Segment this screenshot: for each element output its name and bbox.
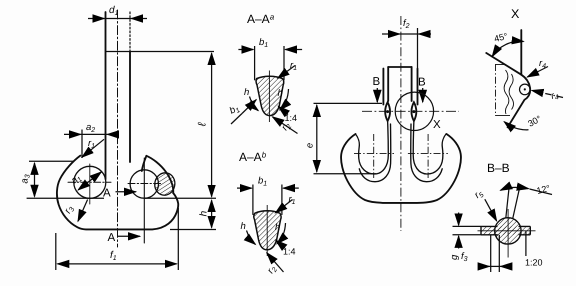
- b1 dim section b: [237, 187, 252, 189]
- svg-text:B–B: B–B: [487, 161, 510, 175]
- g ext top: [453, 225, 482, 227]
- B-B plane line: [362, 110, 459, 112]
- left hollow horizontal centreline: [354, 152, 394, 154]
- 30 deg arc: [504, 122, 528, 130]
- right hollow horizontal centreline: [408, 152, 448, 154]
- b1 leader lower-left section a: [242, 100, 256, 114]
- b-b circle: [495, 218, 521, 244]
- left saddle circle a1: [74, 166, 106, 198]
- b-b flange outline: [481, 226, 530, 234]
- f3 ext left: [490, 235, 492, 272]
- b1 ext left: [254, 46, 256, 80]
- svg-text:B: B: [418, 77, 426, 89]
- right hook seat line: [413, 121, 446, 174]
- svg-text:h: h: [275, 222, 280, 233]
- a3 dimension: [34, 163, 36, 197]
- X detail circle: [395, 92, 433, 130]
- section arrow A top: [116, 191, 136, 193]
- g arrow bottom: [458, 236, 460, 249]
- right beak left edge: [142, 156, 147, 171]
- a2 extension: [81, 130, 83, 159]
- g ext bottom: [453, 234, 482, 236]
- h bottom extension: [170, 229, 216, 231]
- a1 diagonal dimension: [78, 172, 101, 190]
- tip point outline: [508, 75, 531, 128]
- break wavy line 1: [504, 70, 509, 114]
- section arrow A bottom: [117, 235, 140, 237]
- B arrow left: [376, 88, 378, 102]
- break wavy line 2: [509, 74, 513, 110]
- centre line middle figure: [400, 16, 402, 231]
- body tub outline: [341, 134, 461, 203]
- svg-text:1:4: 1:4: [285, 113, 298, 123]
- left under-wrap line: [359, 124, 390, 182]
- f3 ext right: [498, 235, 500, 272]
- saddle tangent line left span: [27, 197, 104, 199]
- r1 leader section a: [278, 66, 295, 79]
- shank right edge: [129, 12, 131, 52]
- h dimension line: [211, 200, 213, 227]
- g arrow top: [458, 213, 460, 226]
- shank inner edge right: [411, 67, 413, 101]
- f2 right extension: [417, 28, 419, 68]
- svg-text:B: B: [373, 76, 381, 88]
- r5 leader dashed: [532, 90, 563, 97]
- svg-text:A: A: [108, 232, 116, 244]
- d1 dimension: [88, 18, 104, 20]
- f1 dimension line: [58, 263, 177, 265]
- h arc right section b: [277, 223, 286, 244]
- left circle horizontal centreline: [68, 181, 111, 183]
- tip radius circle: [520, 84, 531, 95]
- f2 dimension: [382, 33, 400, 35]
- right tip lens: [411, 102, 416, 121]
- f1 extension left: [55, 233, 57, 270]
- section b centreline: [266, 205, 268, 256]
- 45 deg arc: [492, 41, 523, 56]
- taper line right: [513, 187, 520, 218]
- hatched section ellipse on right limb: [153, 171, 177, 197]
- svg-text:h: h: [278, 88, 283, 99]
- shank outer edge right (f2 face): [417, 69, 419, 105]
- svg-text:1:20: 1:20: [525, 258, 543, 268]
- b-b hatch fill circle: [495, 218, 521, 244]
- right tip dot: [412, 110, 415, 113]
- b1 dim section a: [238, 49, 253, 51]
- 1:4 leader section b: [276, 240, 285, 248]
- svg-text:X: X: [511, 7, 520, 21]
- detail centreline: [495, 64, 497, 116]
- 1:20 reference line: [525, 231, 527, 256]
- shank inner edge left: [387, 67, 389, 101]
- 1:4 leader section a: [278, 106, 288, 114]
- svg-text:h: h: [241, 221, 246, 232]
- left hollow vertical centreline: [373, 134, 375, 178]
- tip outer face vertical: [520, 30, 522, 75]
- section a-a-b outline: [254, 211, 281, 250]
- h arc right section a: [280, 89, 289, 110]
- r3 leader: [78, 200, 88, 222]
- labels left figure: [20, 5, 210, 262]
- shank left edge: [105, 12, 107, 179]
- right circle vertical line / section A-A trace: [143, 158, 145, 243]
- detail bottom tick: [496, 115, 511, 117]
- b1 ext right section b: [281, 185, 283, 215]
- svg-text:g: g: [449, 254, 460, 260]
- leader line tail lower-left: [231, 114, 242, 125]
- r4 leader: [527, 67, 548, 78]
- b1 ext left section b: [252, 185, 254, 215]
- shank outer edge left: [382, 69, 384, 105]
- svg-text:h: h: [199, 210, 210, 216]
- e bottom extension: [314, 173, 377, 175]
- body outline: [57, 156, 178, 230]
- left circle vertical centreline: [89, 164, 91, 204]
- svg-text:h: h: [244, 87, 249, 98]
- taper line left: [506, 185, 510, 218]
- right circle horizontal centreline: [128, 183, 162, 185]
- svg-text:A: A: [103, 188, 111, 200]
- right beak teardrop: [146, 156, 173, 193]
- svg-text:1:4: 1:4: [283, 247, 296, 257]
- f3 dim arrows: [478, 265, 489, 267]
- r5 leader b-b: [485, 199, 497, 221]
- centre line shank: [117, 10, 119, 247]
- left tip dot: [386, 110, 389, 113]
- tip circle dot: [524, 88, 526, 90]
- svg-text:e: e: [305, 143, 316, 148]
- b1 ext right: [283, 46, 285, 80]
- top reference line: [106, 51, 215, 53]
- b-b horizontal centreline: [478, 230, 536, 232]
- left hook seat line: lens bottom, down right arm, U bottom, up left arm, into ear tip: [356, 121, 389, 174]
- right under-wrap line: [411, 124, 442, 182]
- r2 leader section b: [267, 253, 284, 272]
- 12 deg leader: [530, 189, 553, 195]
- right saddle circle: [130, 170, 158, 198]
- B arrow right: [422, 88, 424, 102]
- l dimension line: [211, 53, 213, 196]
- tip upper diagonal: [486, 53, 521, 75]
- f1 extension right: [177, 208, 179, 270]
- e dimension: [316, 105, 318, 172]
- section a-a-a outline: [256, 76, 284, 115]
- 12 deg arc: [501, 187, 529, 190]
- h arc left section b: [247, 231, 256, 245]
- r2 leader section a: [273, 117, 298, 134]
- b-b hatch fill band: [481, 226, 530, 234]
- saddle tangent line right span: [145, 197, 217, 199]
- a3 top extension: [29, 160, 73, 162]
- svg-text:X: X: [433, 119, 441, 131]
- h arc left section a: [250, 97, 259, 111]
- a2 dimension: [64, 133, 81, 135]
- shank cap: [388, 66, 411, 68]
- detail top tick: [496, 64, 507, 66]
- r1 leader section b: [276, 200, 293, 213]
- e top extension: [314, 102, 383, 104]
- b-b vertical centreline: [507, 209, 509, 258]
- right hollow vertical centreline: [427, 134, 429, 178]
- left tip lens: [385, 102, 390, 121]
- svg-text:ℓ: ℓ: [197, 122, 209, 127]
- r1 leader: [82, 139, 104, 157]
- section a centreline: [268, 71, 270, 123]
